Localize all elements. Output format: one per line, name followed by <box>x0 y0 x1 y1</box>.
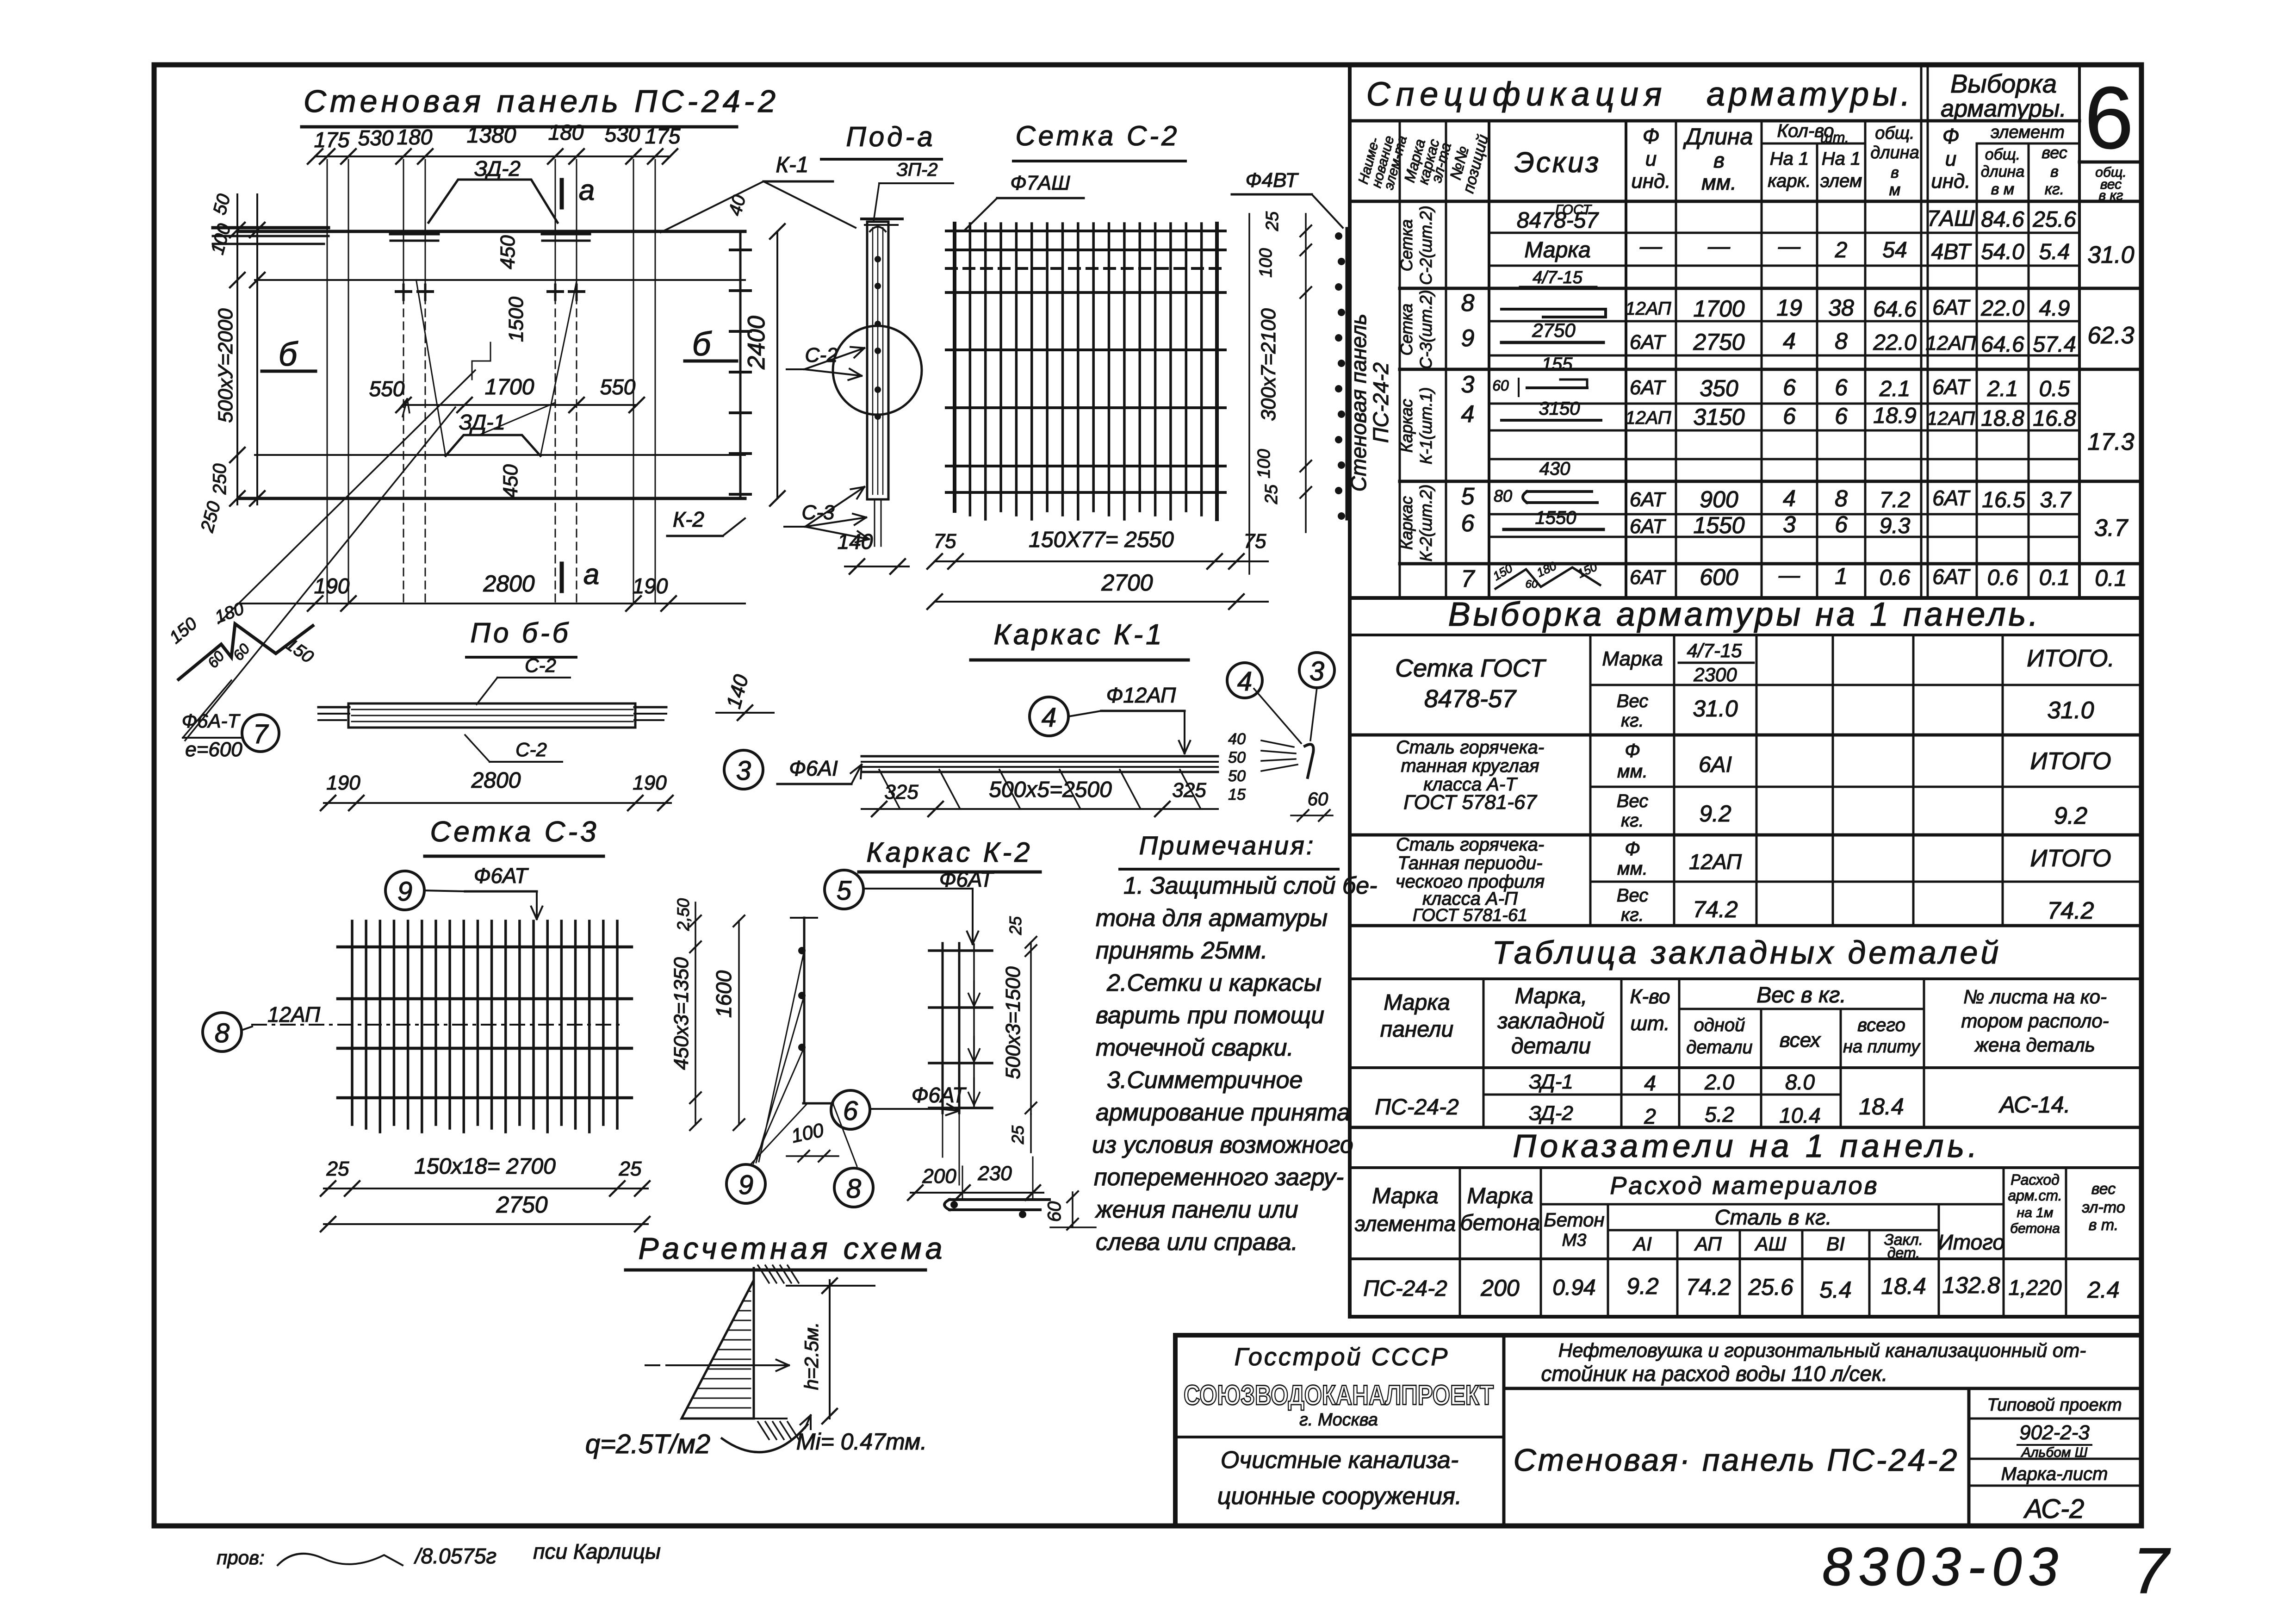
svg-text:175: 175 <box>645 124 681 148</box>
svg-text:Каркас: Каркас <box>1397 496 1416 550</box>
svg-text:шт.: шт. <box>1820 129 1849 146</box>
svg-text:h=2.5м.: h=2.5м. <box>800 1322 822 1390</box>
svg-text:1550: 1550 <box>1535 508 1576 528</box>
svg-text:50: 50 <box>1228 767 1246 785</box>
svg-text:325: 325 <box>1172 779 1206 802</box>
svg-text:0.1: 0.1 <box>2039 566 2070 590</box>
svg-text:арм.ст.: арм.ст. <box>2008 1187 2062 1204</box>
svg-text:900: 900 <box>1700 486 1738 512</box>
svg-text:ЗД-1: ЗД-1 <box>1529 1070 1573 1093</box>
svg-text:По б-б: По б-б <box>471 617 571 648</box>
svg-text:ЗД-2: ЗД-2 <box>474 156 521 180</box>
callout 5 with label F6AT <box>825 867 994 944</box>
svg-text:6АТ: 6АТ <box>1630 331 1666 354</box>
svg-text:С-2: С-2 <box>515 739 547 760</box>
mesh C-3 grid <box>252 921 632 1132</box>
svg-text:Вес: Вес <box>1617 691 1648 711</box>
mesh C-3 bottom dimensions <box>321 1154 650 1232</box>
panel right dimension 2400 <box>725 193 785 506</box>
svg-text:Госстрой СССР: Госстрой СССР <box>1235 1343 1450 1371</box>
svg-text:12АП: 12АП <box>1927 407 1975 429</box>
svg-text:190: 190 <box>314 574 350 598</box>
svg-text:3: 3 <box>1461 371 1475 398</box>
svg-text:2: 2 <box>1644 1104 1656 1128</box>
karkas K-2 dim 200 230 <box>908 1157 1043 1200</box>
svg-text:кг.: кг. <box>1621 905 1644 925</box>
svg-text:и: и <box>1645 148 1657 170</box>
svg-text:вес: вес <box>2042 143 2067 162</box>
svg-text:кг.: кг. <box>2045 180 2064 198</box>
label C-3 with arrows <box>784 487 869 542</box>
svg-text:31.0: 31.0 <box>2047 697 2094 724</box>
callout 9 with label F6AT <box>385 864 542 919</box>
svg-text:902-2-3: 902-2-3 <box>2019 1421 2090 1444</box>
svg-text:6АТ: 6АТ <box>1932 295 1971 319</box>
svg-text:60: 60 <box>1308 789 1328 809</box>
svg-text:9.2: 9.2 <box>1626 1273 1659 1299</box>
svg-text:31.0: 31.0 <box>2087 242 2134 268</box>
svg-text:4.9: 4.9 <box>2039 296 2070 321</box>
pokazateli table title row <box>1350 1166 2141 1169</box>
svg-text:Нефтеловушка и горизонтальный: Нефтеловушка и горизонтальный канализаци… <box>1558 1339 2086 1361</box>
svg-text:100: 100 <box>789 1119 826 1147</box>
svg-text:12АП: 12АП <box>1689 850 1742 874</box>
svg-text:4ВТ: 4ВТ <box>1931 240 1973 264</box>
svg-text:СОЮЗВОДОКАНАЛПРОЕКТ: СОЮЗВОДОКАНАЛПРОЕКТ <box>1184 1380 1494 1411</box>
svg-text:500х3=1500: 500х3=1500 <box>1002 966 1024 1079</box>
svg-text:С-3: С-3 <box>802 501 835 524</box>
svg-text:6АТ: 6АТ <box>1932 565 1971 589</box>
svg-text:На 1: На 1 <box>1770 149 1809 169</box>
svg-text:2.1: 2.1 <box>1987 377 2018 401</box>
svg-text:Расчетная схема: Расчетная схема <box>639 1231 946 1265</box>
svg-text:25: 25 <box>326 1157 349 1180</box>
vyborka table grid <box>1350 635 2141 926</box>
svg-text:К-во: К-во <box>1630 985 1670 1008</box>
svg-text:190: 190 <box>633 772 667 794</box>
svg-text:детали: детали <box>1511 1034 1591 1058</box>
callout 9 bottom <box>726 1164 765 1203</box>
svg-text:Марка: Марка <box>1524 238 1590 262</box>
svg-text:5: 5 <box>837 876 852 906</box>
svg-text:54: 54 <box>1882 238 1907 262</box>
svg-text:на 1м: на 1м <box>2017 1205 2054 1220</box>
svg-text:Альбом Ш: Альбом Ш <box>2021 1445 2088 1460</box>
svg-text:1700: 1700 <box>1693 296 1744 322</box>
label K-1 with leaders <box>661 153 856 232</box>
karkas K-2 side bar with fan to callouts <box>751 918 857 1166</box>
svg-text:5.4: 5.4 <box>2039 240 2070 264</box>
svg-text:550: 550 <box>600 375 636 399</box>
svg-text:ЗД-2: ЗД-2 <box>1529 1102 1573 1125</box>
svg-text:2.1: 2.1 <box>1879 377 1911 401</box>
svg-text:150: 150 <box>166 614 201 647</box>
svg-text:общ.: общ. <box>1985 146 2020 163</box>
svg-text:ГОСТ 5781-67: ГОСТ 5781-67 <box>1403 791 1537 814</box>
svg-text:кг.: кг. <box>1621 710 1644 731</box>
svg-text:18.9: 18.9 <box>1873 404 1916 428</box>
svg-text:180: 180 <box>548 120 584 144</box>
svg-text:—: — <box>1639 234 1663 259</box>
svg-text:кг.: кг. <box>1621 810 1644 831</box>
svg-text:3150: 3150 <box>1539 398 1580 419</box>
anchor marks under ZD-2 <box>391 234 590 300</box>
svg-text:Эскиз: Эскиз <box>1514 147 1601 179</box>
svg-text:8: 8 <box>846 1174 861 1204</box>
mesh C-2 label F7AIII <box>965 172 1084 230</box>
svg-text:е=600: е=600 <box>185 738 242 761</box>
svg-text:м: м <box>1889 180 1901 199</box>
svg-text:2.Сетки и каркасы: 2.Сетки и каркасы <box>1106 970 1322 996</box>
svg-text:3150: 3150 <box>1693 404 1744 430</box>
callout 6 with label F6AT <box>831 1083 967 1129</box>
svg-text:100: 100 <box>1254 449 1274 478</box>
svg-text:слева или справа.: слева или справа. <box>1096 1229 1298 1256</box>
svg-text:Стеновая панель: Стеновая панель <box>1347 314 1371 492</box>
panel middle dimension 550 1700 550 <box>369 375 644 412</box>
svg-text:150Х77= 2550: 150Х77= 2550 <box>1029 528 1174 552</box>
svg-text:100: 100 <box>1256 248 1276 277</box>
svg-text:—: — <box>1778 234 1801 259</box>
panel bottom dimension 190 2800 190 <box>238 571 745 611</box>
svg-text:200: 200 <box>1480 1275 1520 1301</box>
svg-text:из условия возможного: из условия возможного <box>1092 1132 1353 1158</box>
svg-text:3: 3 <box>736 756 751 786</box>
section mark a top <box>560 180 564 207</box>
svg-text:150х18= 2700: 150х18= 2700 <box>414 1154 556 1179</box>
svg-text:600: 600 <box>1700 564 1738 590</box>
svg-text:/8.0575г: /8.0575г <box>414 1544 496 1568</box>
svg-text:2750: 2750 <box>496 1192 547 1218</box>
Pod-a detail circle <box>833 326 922 415</box>
Pod-a bottom dim 140 <box>838 529 909 574</box>
triangle hatch <box>687 1291 751 1408</box>
svg-text:всего: всего <box>1857 1015 1905 1035</box>
svg-text:15: 15 <box>1228 786 1246 803</box>
svg-text:6АТ: 6АТ <box>1932 375 1971 399</box>
Pod-b right dim 140 <box>716 672 774 720</box>
svg-text:Танная периоди-: Танная периоди- <box>1397 853 1542 873</box>
svg-text:Бетон: Бетон <box>1544 1209 1604 1231</box>
svg-text:75: 75 <box>1244 530 1266 553</box>
svg-text:2,50: 2,50 <box>674 898 693 931</box>
sheet frame <box>154 65 2141 1526</box>
svg-text:64.6: 64.6 <box>1981 332 2024 357</box>
svg-text:7: 7 <box>253 719 269 749</box>
karkas K-2 dim 100 <box>787 1119 838 1162</box>
karkas K-2 bottom hook bar <box>944 1191 1096 1230</box>
svg-text:9: 9 <box>1461 325 1475 352</box>
svg-text:5.2: 5.2 <box>1705 1102 1734 1126</box>
svg-text:Таблица закладных деталей: Таблица закладных деталей <box>1492 934 2002 971</box>
title block frame <box>1175 1335 2141 1526</box>
svg-text:1,220: 1,220 <box>2008 1276 2062 1300</box>
svg-text:Сетка: Сетка <box>1397 219 1416 272</box>
svg-text:К-1(шт.1): К-1(шт.1) <box>1416 387 1435 465</box>
embedded detail ZD-2 trapezoid <box>428 180 558 223</box>
svg-text:жения панели или: жения панели или <box>1095 1196 1298 1223</box>
svg-text:вес: вес <box>2091 1180 2116 1198</box>
svg-text:Выборка: Выборка <box>1950 69 2057 98</box>
svg-text:АI: АI <box>1632 1233 1652 1255</box>
svg-text:74.2: 74.2 <box>2047 897 2094 924</box>
svg-text:190: 190 <box>633 574 668 598</box>
svg-text:Ф: Ф <box>1942 124 1960 148</box>
svg-text:К-2(шт.2): К-2(шт.2) <box>1416 485 1435 562</box>
support hatching top <box>754 1265 799 1283</box>
svg-text:мм.: мм. <box>1617 859 1648 879</box>
svg-text:б: б <box>279 336 298 373</box>
svg-text:Спецификация: Спецификация <box>1366 76 1668 113</box>
svg-text:60: 60 <box>1526 578 1538 591</box>
svg-text:тона для арматуры: тона для арматуры <box>1096 905 1328 932</box>
svg-text:Марка-лист: Марка-лист <box>2001 1464 2108 1484</box>
svg-text:Марка: Марка <box>1384 990 1450 1015</box>
svg-text:Ф: Ф <box>1625 740 1640 761</box>
svg-text:общ.: общ. <box>1875 124 1914 143</box>
svg-text:—: — <box>1778 563 1800 587</box>
svg-text:С-3(шт.2): С-3(шт.2) <box>1416 290 1435 369</box>
svg-text:Ф6АТ: Ф6АТ <box>474 864 529 888</box>
svg-text:мм.: мм. <box>1701 170 1737 194</box>
svg-text:6АТ: 6АТ <box>1932 486 1971 510</box>
svg-text:принять 25мм.: принять 25мм. <box>1096 937 1268 964</box>
svg-text:250: 250 <box>197 499 224 535</box>
svg-text:60: 60 <box>204 648 228 672</box>
svg-text:Вес: Вес <box>1617 791 1648 811</box>
svg-text:12АП: 12АП <box>1625 408 1671 428</box>
svg-text:75: 75 <box>934 530 956 553</box>
svg-text:С-2: С-2 <box>525 654 556 676</box>
svg-text:Каркас: Каркас <box>1397 399 1416 453</box>
svg-text:2750: 2750 <box>1532 319 1576 341</box>
mesh C-2 grid <box>946 224 1225 519</box>
svg-text:6: 6 <box>2085 69 2134 167</box>
svg-text:Типовой проект: Типовой проект <box>1987 1395 2122 1415</box>
svg-text:8: 8 <box>215 1018 230 1048</box>
svg-text:АП: АП <box>1694 1233 1722 1255</box>
svg-text:длина: длина <box>1870 143 1919 162</box>
svg-text:4/7-15: 4/7-15 <box>1687 640 1742 661</box>
svg-text:Ф4ВТ: Ф4ВТ <box>1246 169 1299 192</box>
svg-text:25.6: 25.6 <box>2032 207 2076 232</box>
svg-text:б: б <box>692 326 712 363</box>
svg-text:ЗД-1: ЗД-1 <box>459 410 505 434</box>
svg-text:9.2: 9.2 <box>2054 803 2087 829</box>
svg-text:Сетка ГОСТ: Сетка ГОСТ <box>1395 654 1547 682</box>
svg-text:в: в <box>1891 164 1899 181</box>
svg-text:детали: детали <box>1686 1037 1752 1058</box>
svg-text:5.4: 5.4 <box>1819 1277 1852 1303</box>
svg-text:3.7: 3.7 <box>2094 515 2128 541</box>
label C-2 with arrows <box>787 344 864 380</box>
svg-text:элемента: элемента <box>1355 1212 1456 1236</box>
svg-text:Сетка С-3: Сетка С-3 <box>430 816 599 848</box>
panel outline <box>213 228 745 498</box>
svg-text:АШ: АШ <box>1754 1233 1787 1255</box>
svg-text:8303-03: 8303-03 <box>1822 1537 2065 1597</box>
svg-text:6: 6 <box>1835 403 1848 429</box>
svg-text:18.4: 18.4 <box>1881 1273 1926 1299</box>
svg-text:9.2: 9.2 <box>1699 801 1731 827</box>
notes text <box>1092 872 1378 1256</box>
svg-text:арматуры.: арматуры. <box>1941 95 2066 122</box>
svg-text:№ листа на ко-: № листа на ко- <box>1963 986 2107 1008</box>
svg-text:Каркас К-2: Каркас К-2 <box>866 837 1032 868</box>
svg-text:6АI: 6АI <box>1699 753 1732 777</box>
svg-text:0.94: 0.94 <box>1552 1276 1595 1300</box>
svg-text:74.2: 74.2 <box>1693 896 1738 922</box>
svg-text:шт.: шт. <box>1631 1012 1670 1035</box>
svg-text:7: 7 <box>2133 1534 2171 1607</box>
svg-text:64.6: 64.6 <box>1873 297 1917 322</box>
callout 4 with label F12AP <box>1030 683 1190 753</box>
svg-text:1: 1 <box>1835 563 1848 589</box>
mesh C-2 label F4VT <box>1232 169 1343 228</box>
mesh C-2 right dimension column <box>1249 211 1311 574</box>
svg-text:Выборка арматуры на 1 панель.: Выборка арматуры на 1 панель. <box>1448 596 2041 633</box>
svg-text:132.8: 132.8 <box>1942 1272 2000 1298</box>
Pod-b bottom dimensions <box>321 768 673 810</box>
mesh C-2 side bar with weld dots <box>1346 229 1349 519</box>
svg-text:2800: 2800 <box>471 768 521 793</box>
svg-text:ГОСТ 5781-61: ГОСТ 5781-61 <box>1413 906 1527 925</box>
svg-text:элем: элем <box>1820 171 1862 191</box>
spec table rotated row labels <box>1347 205 1435 561</box>
svg-text:Под-а: Под-а <box>846 121 935 152</box>
svg-text:4: 4 <box>1783 485 1796 511</box>
svg-text:3.7: 3.7 <box>2040 488 2072 512</box>
svg-text:Длина: Длина <box>1683 124 1753 149</box>
svg-text:450: 450 <box>496 235 519 269</box>
svg-text:ИТОГО: ИТОГО <box>2030 845 2111 872</box>
svg-text:25: 25 <box>1008 1125 1027 1145</box>
svg-text:точечной сварки.: точечной сварки. <box>1096 1034 1294 1061</box>
svg-text:Сетка: Сетка <box>1397 304 1416 356</box>
svg-text:18.4: 18.4 <box>1859 1094 1904 1120</box>
svg-text:180: 180 <box>1534 559 1558 580</box>
svg-text:300х7=2100: 300х7=2100 <box>1257 308 1280 421</box>
svg-text:ВI: ВI <box>1826 1233 1845 1255</box>
svg-text:155: 155 <box>1542 354 1573 374</box>
svg-text:бетона: бетона <box>2010 1221 2060 1236</box>
svg-text:10.4: 10.4 <box>1779 1103 1821 1127</box>
svg-text:6АТ: 6АТ <box>1630 566 1666 589</box>
big diagonal leader lines to callout 7 <box>185 370 475 740</box>
svg-text:12АП: 12АП <box>1925 332 1976 355</box>
svg-text:одной: одной <box>1694 1015 1745 1035</box>
spec table header texts <box>1356 121 2127 203</box>
svg-text:6: 6 <box>843 1096 858 1126</box>
svg-text:325: 325 <box>884 781 918 803</box>
svg-text:430: 430 <box>1539 459 1570 479</box>
svg-text:Сталь горячека-: Сталь горячека- <box>1396 834 1544 855</box>
svg-text:2.4: 2.4 <box>2087 1277 2120 1303</box>
svg-text:3: 3 <box>1309 656 1324 686</box>
callout 8 bottom <box>834 1168 873 1207</box>
svg-text:22.0: 22.0 <box>1873 330 1917 355</box>
karkas K-2 ladder <box>929 943 992 1185</box>
svg-text:карк.: карк. <box>1768 171 1811 191</box>
svg-text:1500: 1500 <box>505 297 527 342</box>
karkas K-1 dimension line <box>862 778 1218 816</box>
zakladnye table title row <box>1350 977 2141 980</box>
svg-text:Сталь горячека-: Сталь горячека- <box>1396 737 1544 758</box>
svg-text:1700: 1700 <box>485 375 534 399</box>
svg-text:в м: в м <box>1991 180 2015 198</box>
svg-text:элемент: элемент <box>1991 123 2065 142</box>
svg-text:140: 140 <box>722 672 753 711</box>
svg-text:6АТ: 6АТ <box>1630 515 1666 538</box>
svg-text:1600: 1600 <box>712 970 736 1018</box>
svg-text:500х5=2500: 500х5=2500 <box>989 778 1112 802</box>
panel left dimension lines <box>197 192 265 535</box>
svg-text:а: а <box>579 174 595 206</box>
svg-text:и: и <box>1945 148 1956 170</box>
svg-text:16.8: 16.8 <box>2033 406 2076 431</box>
svg-text:7.2: 7.2 <box>1880 488 1911 512</box>
svg-text:2300: 2300 <box>1693 664 1737 685</box>
svg-text:250: 250 <box>210 464 230 495</box>
svg-text:0.5: 0.5 <box>2039 377 2070 401</box>
Pod-a wall strip section <box>862 219 902 546</box>
panel top dimension line <box>308 120 681 164</box>
svg-text:2400: 2400 <box>743 316 770 370</box>
svg-text:инд.: инд. <box>1631 170 1670 193</box>
svg-text:3: 3 <box>1783 511 1796 537</box>
title block texts <box>1184 1339 2122 1524</box>
svg-text:6: 6 <box>1835 374 1848 400</box>
svg-text:длина: длина <box>1981 163 2025 180</box>
svg-text:150: 150 <box>282 635 317 667</box>
svg-text:6: 6 <box>1783 403 1796 429</box>
support hatching bottom <box>740 1419 799 1439</box>
svg-text:60: 60 <box>1044 1201 1065 1222</box>
svg-text:К-1: К-1 <box>776 153 809 177</box>
svg-text:5: 5 <box>1461 483 1475 510</box>
svg-text:ПС-24-2: ПС-24-2 <box>1363 1276 1447 1301</box>
svg-text:Стеновая· панель ПС-24-2: Стеновая· панель ПС-24-2 <box>1514 1443 1959 1478</box>
svg-text:200: 200 <box>922 1165 956 1188</box>
svg-text:ЗП-2: ЗП-2 <box>896 160 937 180</box>
svg-text:4: 4 <box>1461 401 1475 428</box>
svg-text:На 1: На 1 <box>1822 149 1861 169</box>
svg-text:84.6: 84.6 <box>1981 207 2024 232</box>
svg-text:инд.: инд. <box>1931 170 1970 193</box>
svg-text:Примечания:: Примечания: <box>1139 831 1316 860</box>
svg-text:С-2(шт.2): С-2(шт.2) <box>1416 205 1435 285</box>
callout 8 with label 12AP <box>203 1002 321 1052</box>
svg-text:дет.: дет. <box>1887 1244 1920 1261</box>
svg-text:74.2: 74.2 <box>1686 1274 1731 1300</box>
svg-text:q=2.5Т/м2: q=2.5Т/м2 <box>585 1429 710 1459</box>
svg-text:эл-то: эл-то <box>2082 1199 2125 1216</box>
pokazateli table grid <box>1350 1168 2141 1317</box>
calc scheme load triangle <box>682 1280 754 1419</box>
svg-text:а: а <box>583 559 599 591</box>
callout 7 with label <box>182 680 279 761</box>
svg-text:4: 4 <box>1783 328 1796 354</box>
svg-text:25: 25 <box>1262 484 1281 504</box>
svg-text:3.Симметричное: 3.Симметричное <box>1107 1067 1303 1094</box>
svg-text:танная круглая: танная круглая <box>1401 756 1539 776</box>
svg-text:18.8: 18.8 <box>1981 406 2024 431</box>
svg-text:9: 9 <box>397 877 412 907</box>
svg-text:8478-57: 8478-57 <box>1424 685 1517 713</box>
svg-text:Мi= 0.47тм.: Мi= 0.47тм. <box>796 1429 927 1455</box>
zakladnye table texts <box>1375 983 2109 1128</box>
svg-text:57.4: 57.4 <box>2033 332 2076 357</box>
